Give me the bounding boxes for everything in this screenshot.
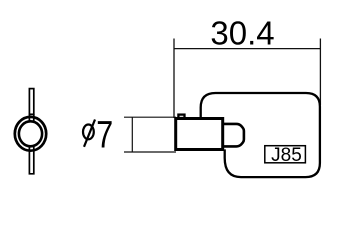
- dimension 30.4 line: [174, 48, 320, 50]
- front view inner ring: [19, 121, 42, 146]
- cylinder key bump: [178, 115, 184, 118]
- svg-text:J85: J85: [271, 145, 302, 166]
- latch tab: [223, 124, 244, 146]
- cylinder side view: [176, 119, 223, 150]
- svg-text:7: 7: [96, 114, 113, 156]
- phi7 dimension bottom line: [124, 151, 176, 153]
- front view pin bar hidden segment upper: [28, 114, 30, 121]
- phi7 dimension top line: [124, 116, 176, 118]
- dimension 30.4 extension line right: [319, 39, 321, 106]
- phi symbol: [83, 120, 95, 147]
- J85 label box: [265, 146, 306, 163]
- dimension 30.4 extension line left: [173, 39, 175, 119]
- front view outer ring: [15, 117, 46, 151]
- phi7 dimension vertical connector: [131, 117, 133, 152]
- front view pin bar bottom segment: [29, 146, 33, 174]
- front view pin bar top segment: [29, 89, 33, 115]
- connector body outline: [201, 93, 320, 177]
- svg-text:30.4: 30.4: [210, 14, 274, 51]
